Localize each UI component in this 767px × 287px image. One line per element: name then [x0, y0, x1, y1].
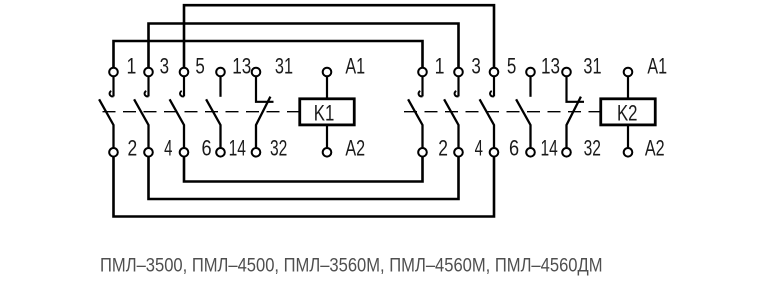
mechanical linkage K1 (dashed) [103, 111, 300, 113]
contactor K2 main contact 1-2 [408, 68, 427, 157]
svg-text:1: 1 [126, 54, 136, 79]
contactor K2 aux NC contact 31-32 [562, 68, 584, 157]
wire T3: K1 pin 2 to K2 pin 6 [114, 157, 495, 217]
wire L2: K1 pin 3 to K2 pin 3 [149, 24, 459, 69]
svg-text:4: 4 [164, 135, 172, 160]
svg-text:3: 3 [471, 54, 480, 79]
svg-text:31: 31 [275, 54, 293, 79]
svg-text:31: 31 [583, 54, 601, 79]
svg-text:32: 32 [270, 135, 287, 160]
svg-text:K1: K1 [314, 100, 335, 125]
svg-text:3: 3 [160, 54, 169, 79]
svg-text:13: 13 [541, 54, 560, 79]
wire L1: K1 pin 1 to K2 pin 1 [114, 41, 423, 68]
svg-text:32: 32 [584, 135, 601, 160]
svg-text:ПМЛ–3500, ПМЛ–4500, ПМЛ–3560М,: ПМЛ–3500, ПМЛ–4500, ПМЛ–3560М, ПМЛ–4560М… [100, 254, 603, 276]
wire L3: K1 pin 5 to K2 pin 5 [184, 5, 494, 68]
svg-text:1: 1 [435, 54, 445, 79]
svg-text:14: 14 [229, 135, 246, 160]
contactor K1 main contact 1-2 [99, 68, 118, 157]
svg-text:14: 14 [541, 135, 558, 160]
mechanical linkage K2 (dashed) [404, 111, 601, 113]
svg-text:K2: K2 [617, 100, 638, 125]
svg-text:4: 4 [475, 135, 483, 160]
svg-text:A2: A2 [345, 135, 365, 160]
svg-text:A2: A2 [645, 135, 665, 160]
contactor K2 main contact 3-4 [444, 68, 463, 157]
wire T2: K1 pin 4 to K2 pin 4 [149, 157, 459, 199]
svg-text:A1: A1 [647, 54, 667, 79]
contactor K1 main contact 3-4 [134, 68, 153, 157]
svg-text:2: 2 [128, 135, 138, 160]
coil K2 [601, 68, 656, 157]
svg-text:5: 5 [195, 54, 204, 79]
contactor K2 main contact 5-6 [480, 68, 499, 157]
svg-text:5: 5 [507, 54, 516, 79]
contactor K1 main contact 5-6 [170, 68, 189, 157]
contactor K1 aux NC contact 31-32 [252, 68, 274, 157]
coil K1 [300, 68, 355, 157]
svg-text:6: 6 [509, 135, 519, 160]
contactor K1 aux NO contact 13-14 [206, 68, 225, 157]
svg-text:13: 13 [232, 54, 251, 79]
wire T1: K1 pin 6 to K2 pin 2 [184, 157, 423, 182]
contactor K2 aux NO contact 13-14 [516, 68, 535, 157]
svg-text:6: 6 [201, 135, 211, 160]
svg-text:2: 2 [438, 135, 448, 160]
svg-text:A1: A1 [345, 54, 365, 79]
